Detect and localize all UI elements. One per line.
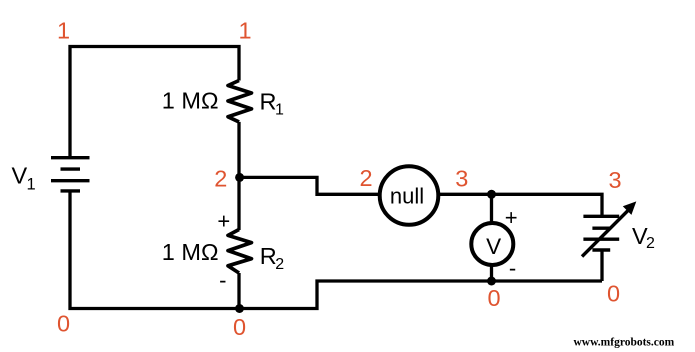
- node 2 junction: [235, 173, 244, 182]
- battery V2: [583, 216, 619, 250]
- wire top rail node 1: [70, 47, 239, 158]
- label R2: [260, 243, 285, 273]
- svg-text:R: R: [260, 243, 277, 269]
- svg-text:V: V: [12, 163, 28, 189]
- svg-text:2: 2: [646, 235, 655, 252]
- label V1: [12, 163, 36, 194]
- voltmeter V: [471, 223, 513, 265]
- wire null to node 3 and V2: [438, 194, 602, 216]
- arrow variable source V2: [582, 201, 636, 256]
- node 0 junction voltmeter: [487, 277, 496, 286]
- label node 3 right: [608, 167, 621, 193]
- svg-text:2: 2: [359, 165, 372, 191]
- svg-text:www.mfgrobots.com: www.mfgrobots.com: [574, 337, 675, 349]
- svg-text:3: 3: [455, 166, 468, 192]
- label node 0 right: [607, 281, 620, 307]
- svg-text:0: 0: [607, 281, 620, 307]
- wire R1 to node 2: [237, 122, 240, 177]
- svg-text:1: 1: [275, 102, 284, 119]
- wire node 2 to null detector: [239, 177, 380, 194]
- svg-text:null: null: [390, 184, 424, 209]
- label R1 value 1 MΩ: [162, 88, 219, 114]
- plus sign R2: [217, 208, 230, 233]
- resistor R1: [228, 81, 252, 122]
- label node 0 bottom: [233, 314, 246, 340]
- null detector: [380, 166, 439, 225]
- svg-text:+: +: [505, 205, 518, 230]
- svg-text:1 MΩ: 1 MΩ: [162, 239, 219, 265]
- svg-text:+: +: [217, 208, 230, 233]
- svg-text:1: 1: [27, 176, 36, 194]
- svg-text:3: 3: [608, 167, 621, 193]
- svg-text:0: 0: [487, 285, 500, 311]
- svg-text:V: V: [486, 234, 501, 259]
- node 0 junction bottom: [235, 304, 244, 313]
- wire V1 negative to bottom rail node 0: [70, 191, 602, 309]
- svg-text:1: 1: [238, 18, 251, 44]
- label node 0 voltmeter: [487, 285, 500, 311]
- resistor R2: [228, 230, 252, 274]
- wire node 3 to voltmeter: [490, 194, 493, 223]
- minus sign voltmeter: [509, 256, 516, 281]
- label node 1 left: [57, 18, 70, 44]
- wire R2 to node 0: [237, 273, 240, 309]
- svg-text:0: 0: [57, 311, 70, 337]
- wire V2 bottom: [600, 250, 603, 281]
- svg-text:2: 2: [214, 166, 227, 192]
- plus sign voltmeter: [505, 205, 518, 230]
- label node 2: [214, 166, 227, 192]
- battery V1: [51, 158, 90, 191]
- minus sign R2: [219, 268, 226, 293]
- label R2 value 1 MΩ: [162, 239, 219, 265]
- svg-text:R: R: [260, 89, 277, 115]
- label V2: [632, 223, 655, 252]
- label node 3 left: [455, 166, 468, 192]
- wire node 2 to R2: [237, 177, 240, 230]
- watermark: [574, 337, 675, 349]
- svg-text:1 MΩ: 1 MΩ: [162, 88, 219, 114]
- label R1: [260, 89, 285, 119]
- label node 0 left: [57, 311, 70, 337]
- label node 2 wire: [359, 165, 372, 191]
- svg-text:0: 0: [233, 314, 246, 340]
- svg-text:1: 1: [57, 18, 70, 44]
- node 3 junction: [487, 190, 496, 199]
- label node 1 right: [238, 18, 251, 44]
- svg-text:-: -: [219, 268, 226, 293]
- wire voltmeter to bottom node 0: [490, 265, 493, 281]
- svg-text:-: -: [509, 256, 516, 281]
- svg-text:2: 2: [275, 256, 284, 273]
